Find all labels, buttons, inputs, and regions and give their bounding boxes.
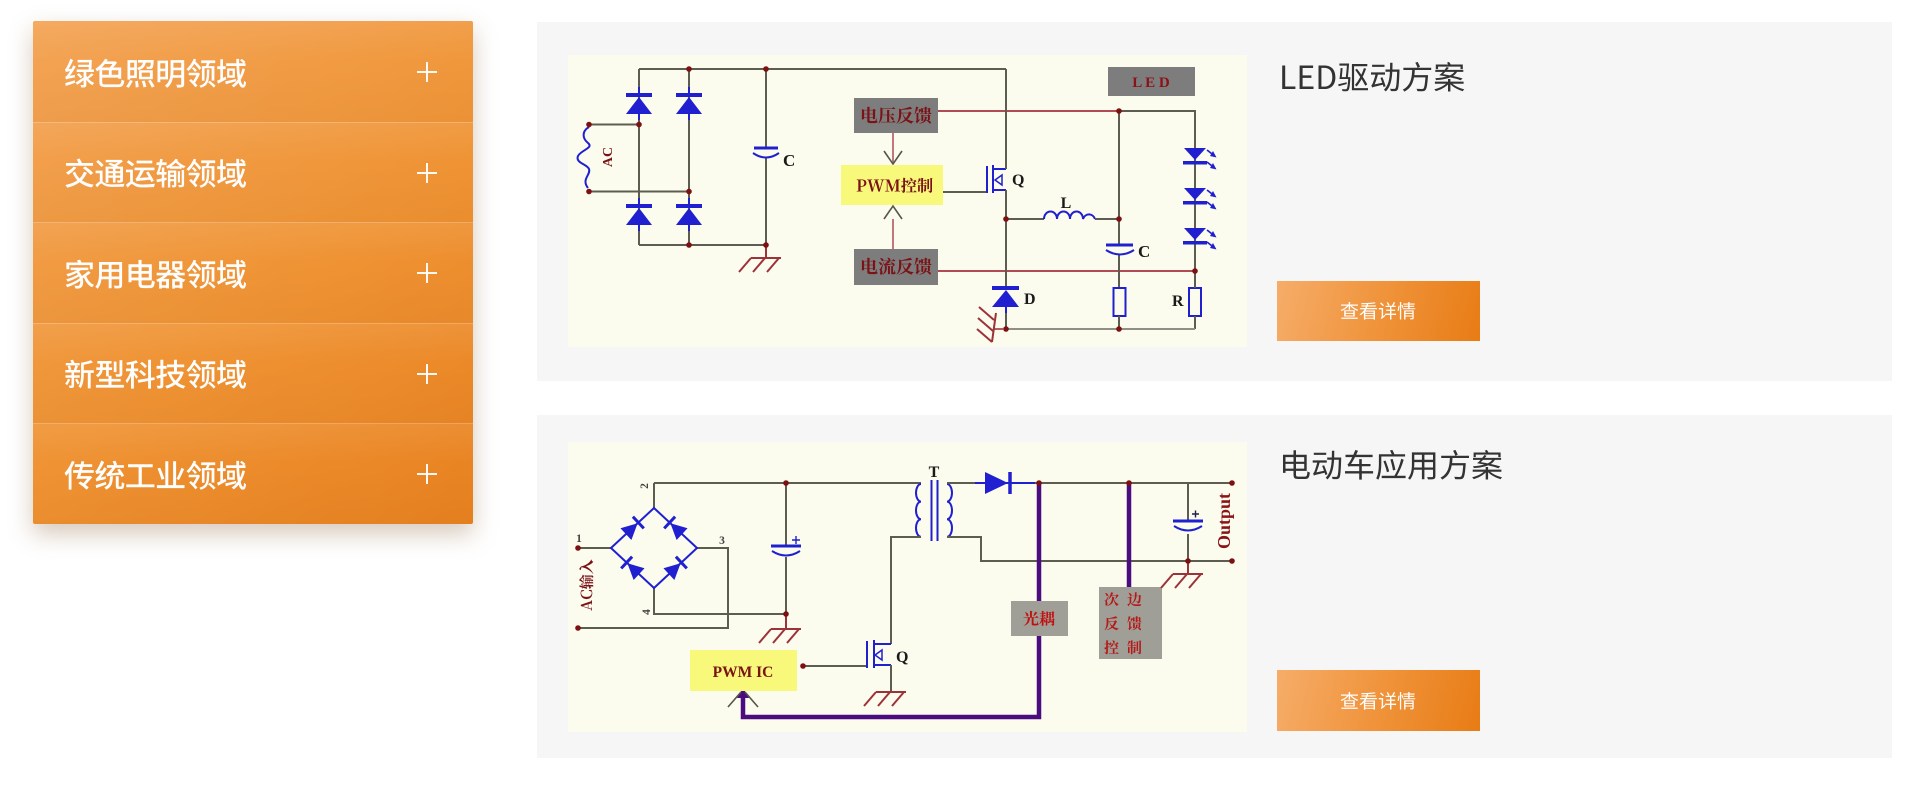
resistor below cap xyxy=(1114,288,1126,316)
AC source xyxy=(578,127,590,188)
node AC bottom terminal xyxy=(586,189,592,195)
wire feedback arrow up xyxy=(892,219,894,249)
wire source to diode xyxy=(1005,190,1007,287)
node resistor return xyxy=(1116,326,1122,332)
svg-text:D: D xyxy=(1024,291,1036,308)
net voltage feedback line xyxy=(938,110,1119,112)
ground output xyxy=(1187,561,1189,574)
wire LED string xyxy=(1194,148,1196,288)
svg-text:T: T xyxy=(929,464,940,481)
node output negative xyxy=(1229,558,1235,564)
net current feedback line xyxy=(938,270,1195,272)
wire primary bottom to drain xyxy=(891,537,921,644)
wire purple secondary feedback xyxy=(1127,483,1132,587)
svg-text:C: C xyxy=(1138,242,1150,261)
wire pin4 to ground xyxy=(654,588,786,614)
capacitor C input filter xyxy=(754,147,778,150)
wire feedback arrow down xyxy=(892,133,894,164)
svg-text:2: 2 xyxy=(639,483,651,489)
wire AC source top lead xyxy=(589,124,639,126)
LED 2 xyxy=(1184,188,1206,200)
capacitor bulk xyxy=(771,545,801,548)
wire top bus xyxy=(654,482,921,484)
wire secondary bottom xyxy=(947,537,1232,561)
svg-text:Q: Q xyxy=(1012,172,1024,189)
wire output cap branch xyxy=(1187,483,1189,561)
node diode anode return xyxy=(1003,326,1009,332)
svg-text:L E D: L E D xyxy=(1132,75,1170,91)
wire inductor left link xyxy=(1006,218,1044,220)
wire R bottom link xyxy=(1194,316,1196,329)
box secondary feedback control 次边反馈控制 xyxy=(1099,587,1162,659)
capacitor output xyxy=(1173,520,1203,523)
node LED resistor xyxy=(1192,268,1198,274)
LED 1 xyxy=(1184,148,1206,160)
wire gate link xyxy=(943,191,986,193)
diode bridge D4 xyxy=(676,204,702,208)
wire AC source bottom lead xyxy=(589,191,689,193)
diode bridge D4 xyxy=(663,557,686,580)
node output positive xyxy=(1229,480,1235,486)
ground bulk cap xyxy=(785,614,787,629)
node bridge bottom cap xyxy=(763,242,769,248)
node top bus col2 xyxy=(686,66,692,72)
svg-text:AC: AC xyxy=(601,147,616,167)
box current feedback 电流反馈 xyxy=(854,249,938,285)
svg-text:4: 4 xyxy=(641,609,653,615)
diode bridge D1 xyxy=(626,93,652,97)
node bulk cap bottom xyxy=(783,611,789,617)
svg-text:1: 1 xyxy=(576,533,582,545)
resistor R xyxy=(1189,288,1201,316)
box LED label xyxy=(1108,67,1195,96)
wire bulk cap branch xyxy=(785,483,787,614)
node AC bottom junction xyxy=(686,189,692,195)
wire bridge left column xyxy=(638,69,640,245)
capacitor C output xyxy=(1106,244,1133,247)
transistor Q mosfet xyxy=(867,640,891,668)
diode bridge D2 xyxy=(676,93,702,97)
node opto feedback tap xyxy=(1036,480,1042,486)
node PWM gate drive xyxy=(800,663,806,669)
node AC top junction xyxy=(636,122,642,128)
wire top bus xyxy=(639,68,1006,70)
diode output rectifier xyxy=(975,482,1035,484)
wire bottom return xyxy=(1006,328,1195,330)
diode bridge D1 xyxy=(620,517,643,540)
node AC top terminal xyxy=(586,122,592,128)
wire AC input 1 xyxy=(578,547,611,549)
wire drain xyxy=(1005,69,1007,169)
box optocoupler 光耦 xyxy=(1011,601,1068,636)
node secondary feedback tap xyxy=(1126,480,1132,486)
wire secondary top xyxy=(947,482,1232,484)
inductor L xyxy=(1044,212,1095,220)
ground input filter xyxy=(765,245,767,258)
diode bridge D3 xyxy=(626,204,652,208)
wire inductor right link xyxy=(1095,218,1119,220)
svg-text:L: L xyxy=(1061,195,1072,212)
svg-text:PWM IC: PWM IC xyxy=(713,664,774,681)
wire source to ground xyxy=(890,665,892,692)
wire output cap branch xyxy=(1118,111,1120,288)
ground source xyxy=(864,692,906,706)
box voltage feedback 电压反馈 xyxy=(854,98,938,133)
node source inductor xyxy=(1003,216,1009,222)
wire purple opto feedback xyxy=(743,483,1039,717)
wire bridge bottom xyxy=(639,244,766,246)
transformer T xyxy=(916,484,921,537)
diode bridge D3 xyxy=(621,557,644,580)
node bulk cap top xyxy=(783,480,789,486)
node feedback cap branch xyxy=(1116,108,1122,114)
wire LED string top xyxy=(1119,111,1195,148)
wire diode anode xyxy=(1005,313,1007,329)
wire AC input 2 xyxy=(578,548,728,628)
svg-text:Output: Output xyxy=(1214,493,1234,549)
svg-text:3: 3 xyxy=(719,535,725,547)
wire rectifier pin2 riser xyxy=(653,483,655,508)
wire resistor bottom link xyxy=(1118,316,1120,329)
ground output xyxy=(993,328,1003,330)
node bridge bottom col2 xyxy=(686,242,692,248)
box PWM control PWM控制 xyxy=(841,165,943,205)
svg-text:C: C xyxy=(783,151,795,170)
transistor Q mosfet xyxy=(987,165,1006,193)
LED 3 xyxy=(1184,228,1206,240)
label AC input 文字 xyxy=(579,560,593,611)
wire bridge right column xyxy=(688,69,690,245)
node top bus cap xyxy=(763,66,769,72)
diode bridge diamond xyxy=(611,508,697,588)
node output cap ground xyxy=(1185,558,1191,564)
box PWM IC xyxy=(690,650,797,691)
svg-text:R: R xyxy=(1172,293,1184,310)
diode bridge D2 xyxy=(664,517,687,540)
svg-text:Q: Q xyxy=(896,649,908,666)
wire gate link xyxy=(803,665,866,667)
node inductor output xyxy=(1116,216,1122,222)
diode D freewheel xyxy=(992,286,1019,290)
wire R top link xyxy=(1194,271,1196,288)
node AC terminal 2 xyxy=(575,625,581,631)
wire filter cap branch xyxy=(765,69,767,245)
node AC terminal 1 xyxy=(575,545,581,551)
